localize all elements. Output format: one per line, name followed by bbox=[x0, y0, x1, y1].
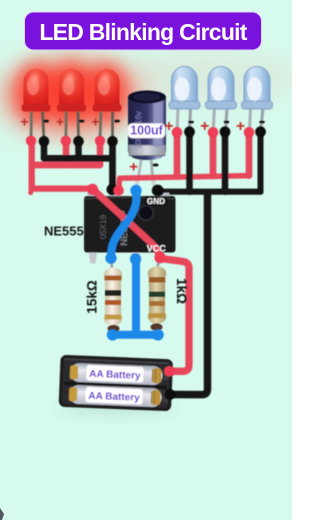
junction left rail to VCC diagonal bbox=[87, 184, 98, 195]
node D1 cathode bbox=[39, 136, 50, 147]
battery holder BT1 bbox=[59, 355, 173, 411]
label GND bbox=[145, 196, 167, 206]
label VCC bbox=[147, 243, 167, 253]
svg-text:GND: GND bbox=[147, 197, 165, 206]
label C1 value 100uf bbox=[128, 124, 165, 139]
COMPONENTS-LAYER bbox=[20, 67, 272, 417]
svg-text:15kΩ: 15kΩ bbox=[85, 280, 100, 314]
node U1 top pin (blue wire / C1 +) bbox=[130, 185, 141, 196]
label R1 value 15kΩ bbox=[85, 280, 100, 314]
label +/- D4 bbox=[164, 118, 193, 135]
svg-text:1kΩ: 1kΩ bbox=[174, 278, 189, 304]
svg-text:+: + bbox=[91, 114, 99, 130]
ambient pink wash bbox=[110, 50, 300, 106]
wire red blue-LED3 anode drop bbox=[246, 132, 253, 175]
node U1 top pin (red rail drop) bbox=[114, 185, 124, 195]
label NE555 bbox=[44, 223, 84, 238]
wire red LED3 anode drop bbox=[97, 141, 104, 165]
corner speck bbox=[0, 508, 4, 520]
svg-text:LED Blinking Circuit: LED Blinking Circuit bbox=[39, 19, 247, 45]
red LED glow bbox=[0, 44, 162, 148]
node D3 anode bbox=[95, 136, 105, 146]
DOTS-LAYER bbox=[26, 126, 266, 399]
wire red blue-LED1 anode drop bbox=[174, 132, 181, 176]
wire black blue-LED3 cathode drop bbox=[258, 132, 264, 191]
node battery negative bbox=[164, 389, 175, 400]
LED D4 (blue) bbox=[169, 67, 200, 133]
svg-text:100uf: 100uf bbox=[130, 124, 163, 138]
label +/- D1 bbox=[20, 114, 48, 130]
wire blue over U1 (pin to R1) bbox=[111, 191, 137, 258]
wire black cathode bus (red LEDs) bbox=[44, 155, 113, 162]
wire red anode rail (blue LEDs) with drop to IC pin bbox=[119, 176, 249, 190]
wire blue timing vertical bbox=[132, 259, 140, 335]
svg-text:NE555: NE555 bbox=[44, 223, 84, 238]
node U1 VCC pin / R2 top bbox=[154, 252, 165, 263]
wire black LED1 cathode drop bbox=[41, 141, 48, 158]
battery cell 1 bbox=[70, 363, 163, 386]
node D5 anode bbox=[208, 127, 219, 138]
LED D1 (red) bbox=[22, 69, 51, 141]
svg-text:+: + bbox=[20, 114, 28, 130]
svg-text:05X19: 05X19 bbox=[98, 214, 108, 239]
node D4 cathode bbox=[184, 126, 195, 137]
node D3 cathode bbox=[107, 136, 118, 147]
svg-text:AA Battery: AA Battery bbox=[88, 391, 140, 404]
svg-text:VCC: VCC bbox=[147, 243, 167, 253]
node U1 top pin 2 (black) bbox=[107, 184, 118, 195]
node D6 cathode bbox=[255, 126, 266, 137]
label R2 value 1kΩ bbox=[174, 278, 189, 304]
node R2 bottom bbox=[152, 329, 163, 340]
LED D5 (blue) bbox=[206, 67, 237, 133]
wire red anode bus H1 (red LEDs) bbox=[32, 162, 100, 169]
svg-text:+: + bbox=[236, 118, 245, 135]
wire blue resistor bottoms bus bbox=[113, 331, 159, 339]
wire black LED2 cathode drop bbox=[75, 141, 82, 158]
node D6 anode bbox=[244, 127, 255, 138]
wire black ground bus (blue LEDs) bbox=[158, 189, 261, 195]
wire red LED1 anode drop + left rail to junction bbox=[31, 141, 93, 193]
LED D6 (blue) bbox=[242, 67, 273, 133]
label +/- D6 bbox=[236, 118, 265, 135]
wire red LED2 anode drop bbox=[63, 141, 70, 165]
node D2 anode bbox=[61, 136, 71, 146]
LED D2 (red) bbox=[57, 69, 86, 141]
node D5 cathode bbox=[220, 126, 231, 137]
wire red blue-LED2 anode drop bbox=[210, 132, 217, 176]
node R1 bottom bbox=[107, 329, 118, 340]
WIRES-LAYER bbox=[31, 132, 261, 394]
CAP-LAYER bbox=[128, 91, 166, 189]
wire black LED3 cathode drop to IC pin bbox=[109, 141, 116, 188]
svg-text:+: + bbox=[56, 114, 64, 130]
resistor R1 15k bbox=[104, 259, 122, 335]
wire red diagonal to VCC over U1 bbox=[93, 189, 160, 256]
node D4 anode bbox=[172, 127, 183, 138]
capacitor C1 electrolytic body bbox=[128, 91, 166, 189]
LED D3 (red) bbox=[93, 69, 122, 141]
node R1 top bbox=[105, 253, 116, 264]
wire black blue-LED2 cathode drop bbox=[222, 132, 229, 191]
op-amp timer IC U1 NE555 bbox=[84, 190, 176, 264]
label +/- D2 bbox=[56, 114, 84, 130]
resistor R2 1k bbox=[148, 259, 166, 335]
node U1 bottom pin (blue) bbox=[130, 253, 141, 264]
node battery positive bbox=[164, 366, 175, 377]
wire black battery negative run bbox=[172, 193, 208, 395]
wire black blue-LED1 cathode drop bbox=[186, 132, 193, 191]
wire red battery positive run bbox=[161, 259, 189, 372]
battery holder shadow bbox=[58, 402, 174, 416]
node D2 cathode bbox=[73, 136, 84, 147]
label C1 polarity bbox=[129, 158, 158, 175]
title bar bbox=[25, 12, 262, 50]
svg-text:AA Battery: AA Battery bbox=[89, 369, 141, 382]
label +/- D3 bbox=[91, 114, 119, 130]
svg-text:+: + bbox=[129, 158, 138, 175]
battery cell 2 bbox=[69, 385, 162, 408]
node D1 anode bbox=[26, 136, 36, 146]
label +/- D5 bbox=[200, 118, 229, 135]
node GND junction (C1 - / ground bus) bbox=[152, 185, 164, 197]
